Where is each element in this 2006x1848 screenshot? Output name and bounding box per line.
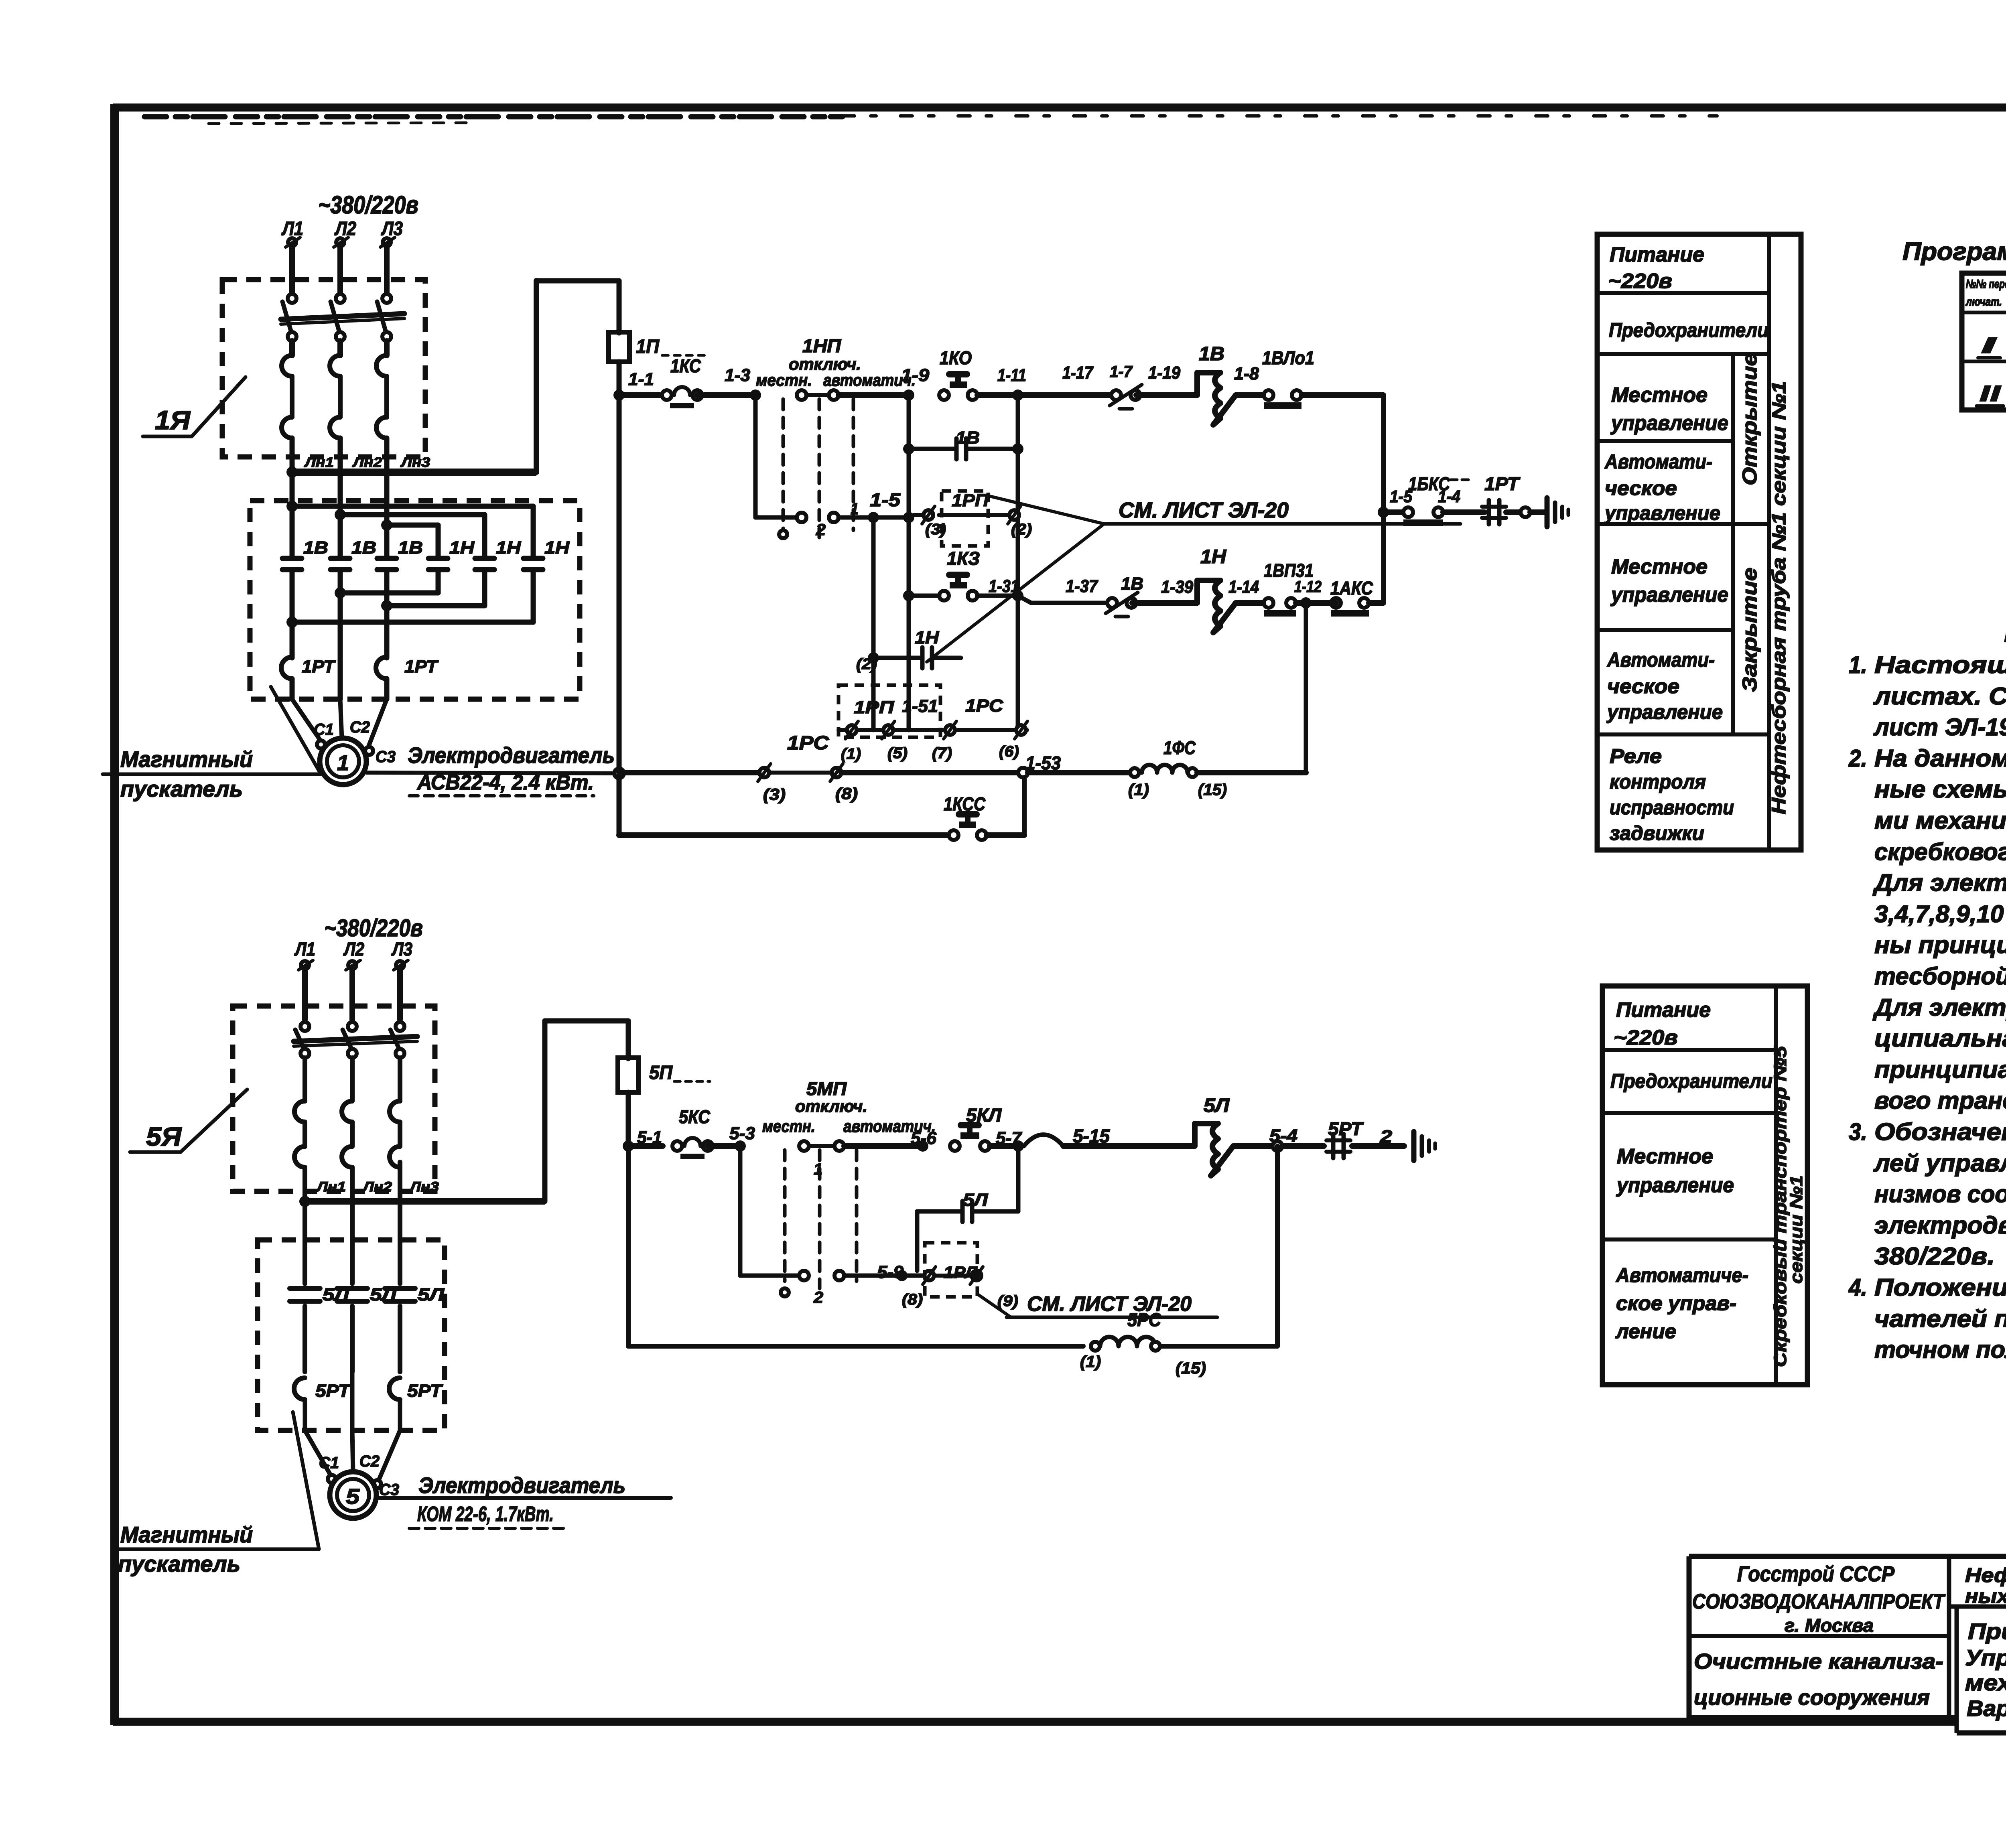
svg-text:1РП: 1РП	[952, 491, 989, 510]
wire rail5 seg3	[844, 1143, 923, 1149]
function table 2 row line 2	[1602, 1111, 1776, 1115]
svg-text:Лн2: Лн2	[352, 455, 382, 470]
svg-text:Автомати-: Автомати-	[1606, 649, 1715, 671]
fuse 5P	[618, 1058, 639, 1092]
svg-text:С1: С1	[319, 1454, 339, 1472]
svg-text:управление: управление	[1610, 412, 1728, 435]
wire rail5 seg8	[1352, 1143, 1404, 1149]
wire rail B seg1	[619, 770, 759, 775]
svg-text:(6): (6)	[999, 743, 1019, 760]
limit switch 1AKS	[1331, 598, 1341, 608]
wire motor1 leader line	[366, 773, 615, 773]
svg-text:Л3: Л3	[381, 218, 403, 239]
svg-text:1-9: 1-9	[901, 365, 930, 385]
function table 1 row line 6	[1597, 732, 1769, 736]
svg-text:5-4: 5-4	[1269, 1126, 1297, 1146]
svg-text:1НП: 1НП	[802, 335, 841, 356]
svg-text:ционные сооружения: ционные сооружения	[1694, 1686, 1930, 1710]
program table outer box	[1962, 273, 2006, 410]
svg-text:С1: С1	[314, 721, 334, 738]
svg-text:задвижки: задвижки	[1610, 822, 1704, 844]
svg-text:управление: управление	[1610, 583, 1728, 607]
wire m5 bottom rail seg2	[1160, 1344, 1277, 1349]
breaker pole 3 (motor1)	[382, 294, 391, 303]
svg-text:1: 1	[337, 751, 349, 775]
svg-text:С3: С3	[376, 748, 396, 766]
coil 1V	[1197, 373, 1236, 425]
wire m5 fuse lead lower	[626, 1092, 631, 1146]
breaker pole 1 (motor1)	[288, 294, 296, 303]
svg-text:1Н: 1Н	[544, 538, 570, 558]
svg-text:Электродвигатель: Электродвигатель	[418, 1473, 625, 1498]
svg-text:Питание: Питание	[1616, 998, 1711, 1022]
svg-text:ление: ление	[1615, 1320, 1676, 1343]
svg-text:чателей показаны на схеме в пр: чателей показаны на схеме в промежу-	[1874, 1305, 2006, 1332]
wire rail B seg3	[1028, 770, 1135, 775]
contact 1RP-2	[847, 725, 857, 735]
svg-text:1АКС: 1АКС	[1330, 578, 1373, 598]
wire control feed bar	[292, 469, 536, 476]
svg-text:ных элементов на расход воды 1: ных элементов на расход воды 110 л/сек	[1965, 1585, 2006, 1607]
wire rail C seg2	[987, 832, 1024, 838]
wire motor5 lead C2	[352, 1430, 353, 1473]
thermal element phase2 (motor1)	[330, 355, 340, 376]
wire rail5 seg4	[990, 1143, 1018, 1149]
svg-text:Для электродвигателей механизм: Для электродвигателей механизмов №№2,	[1872, 869, 2006, 896]
selector 1NP solid stem	[753, 395, 758, 517]
svg-text:(8): (8)	[902, 1291, 923, 1308]
wire phase2 drop	[337, 246, 343, 294]
wire row 5-9	[844, 1274, 923, 1278]
svg-text:Настоящий чертеж выполнен на д: Настоящий чертеж выполнен на двух	[1874, 651, 2006, 678]
svg-text:Автомати-: Автомати-	[1604, 450, 1712, 473]
wire rail A seg4	[977, 392, 1018, 398]
svg-text:Лн1: Лн1	[316, 1179, 346, 1195]
wire phase3 mid	[384, 341, 390, 355]
selector5 dash pos3	[855, 1150, 859, 1281]
svg-text:5: 5	[346, 1485, 360, 1509]
node 1-9	[903, 389, 914, 401]
svg-text:~380/220в: ~380/220в	[324, 915, 423, 941]
svg-text:~220в: ~220в	[1608, 270, 1672, 293]
svg-text:Нефтесборная труба №1 секции №: Нефтесборная труба №1 секции №1	[1768, 381, 1790, 814]
contact 5L-c	[398, 1240, 402, 1284]
svg-text:2: 2	[816, 521, 826, 539]
function table 1 row line 1	[1597, 291, 1769, 295]
terminal before ground (ctrl1)	[1521, 507, 1530, 517]
svg-text:Л1: Л1	[294, 939, 315, 959]
function table 2 outer box	[1602, 986, 1807, 1385]
wire motor5 leader line	[376, 1496, 671, 1500]
terminal L2 m5	[348, 961, 356, 969]
svg-text:вого транспортера №5.: вого транспортера №5.	[1874, 1087, 2006, 1114]
svg-text:Предохранители: Предохранители	[1610, 1070, 1773, 1092]
svg-text:II: II	[1980, 381, 2001, 406]
coil 5RS	[1100, 1337, 1155, 1346]
selector lower contact	[797, 513, 806, 522]
svg-text:Реле: Реле	[1610, 745, 1662, 767]
svg-text:2: 2	[1380, 1127, 1393, 1146]
svg-text:Лн1: Лн1	[304, 455, 334, 470]
svg-text:5КЛ: 5КЛ	[966, 1105, 1002, 1126]
thermal relay 5RT phase1	[294, 1378, 305, 1400]
svg-text:Принципиальные схемы: Принципиальные схемы	[1968, 1619, 2006, 1644]
wire m5 bottom rail seg1	[628, 1344, 1083, 1349]
relay 1RL dashed box	[925, 1243, 977, 1297]
breaker gang bar (motor1)	[281, 314, 404, 319]
wire control feed riser	[534, 281, 539, 472]
wire rail C drop	[617, 773, 622, 835]
contact 1V NC	[1107, 598, 1117, 608]
selector 5MP solid stem	[738, 1146, 743, 1276]
ground (ctrl5)	[1411, 1132, 1417, 1160]
contact 1KS	[662, 390, 672, 400]
wire 5L aux riser	[1016, 1146, 1021, 1211]
svg-text:1КЗ: 1КЗ	[947, 548, 980, 569]
contact 1V selfhold	[954, 438, 959, 459]
svg-text:электродвигателей по схеме сое: электродвигателей по схеме соединений	[1874, 1212, 2006, 1239]
svg-text:листах. Совместно с данным лис: листах. Совместно с данным листом см.	[1873, 683, 2006, 710]
wire rail N seg1	[1018, 596, 1031, 603]
svg-text:СМ. ЛИСТ ЭЛ-20: СМ. ЛИСТ ЭЛ-20	[1119, 498, 1289, 522]
svg-text:2.: 2.	[1848, 745, 1867, 772]
svg-text:пускатель: пускатель	[118, 1551, 240, 1576]
function table 2 row line 3	[1602, 1237, 1776, 1241]
leader line to contactor (motor1)	[271, 687, 321, 774]
svg-text:Местное: Местное	[1617, 1145, 1713, 1168]
wire 5L aux drop	[915, 1211, 920, 1271]
breaker pole 2 (motor1)	[336, 294, 345, 303]
wire distribution row2	[340, 512, 485, 517]
wire m5 phase3 drop	[397, 969, 403, 1020]
contact 1N-c	[524, 556, 543, 561]
node m5 phase1 junction	[299, 1196, 311, 1207]
program table row line b	[1962, 360, 2006, 363]
leader underline (ctrl5)	[1007, 1316, 1217, 1319]
wire distribution row1	[286, 501, 298, 512]
svg-text:5-15: 5-15	[1073, 1126, 1110, 1146]
title block left col split	[1689, 1634, 1949, 1638]
svg-text:СОЮЗВОДОКАНАЛПРОЕКТ: СОЮЗВОДОКАНАЛПРОЕКТ	[1692, 1590, 1946, 1613]
svg-text:~220в: ~220в	[1614, 1026, 1678, 1049]
svg-text:1-19: 1-19	[1148, 363, 1180, 383]
wire rail C seg1	[619, 832, 949, 838]
wire phase1 in box	[290, 570, 295, 658]
svg-text:Питание: Питание	[1610, 243, 1704, 266]
wire V1	[907, 395, 911, 730]
svg-text:1Н: 1Н	[915, 628, 939, 647]
svg-text:1РС: 1РС	[787, 732, 829, 754]
wire rail A seg2	[697, 392, 755, 398]
svg-text:1Я: 1Я	[155, 405, 191, 435]
svg-text:(5): (5)	[887, 745, 908, 762]
svg-text:1РС: 1РС	[965, 696, 1003, 716]
limit switch 1VP31	[1264, 598, 1273, 608]
svg-text:тесборной трубы №1.: тесборной трубы №1.	[1874, 963, 2006, 990]
svg-text:5-3: 5-3	[729, 1124, 755, 1143]
relay 1RP-2 dashed box	[839, 685, 940, 737]
wire output line seg1	[1383, 509, 1406, 515]
svg-text:Обозначение аппаратов и маркир: Обозначение аппаратов и маркировка це-	[1874, 1118, 2006, 1145]
svg-text:точном положении.: точном положении.	[1874, 1336, 2006, 1363]
svg-text:1РЛ: 1РЛ	[944, 1263, 978, 1282]
breaker gang bar (motor5)	[294, 1037, 417, 1041]
selector dash pos2	[818, 399, 821, 538]
contact 1N-a	[428, 556, 448, 561]
pushbutton 1KO	[939, 390, 949, 400]
wire phase3 in box	[384, 570, 390, 658]
leader diag2 (ctrl1)	[927, 524, 1104, 662]
contact 1V-c	[377, 556, 396, 561]
svg-text:отключ.: отключ.	[795, 1097, 867, 1116]
coil 1FS	[1142, 765, 1188, 773]
wire phase2 mid	[337, 341, 343, 355]
svg-text:Нефтеловушка из сборных железо: Нефтеловушка из сборных железобетон-	[1965, 1564, 2006, 1586]
svg-text:I: I	[1981, 333, 1997, 358]
wire 1KZ row left	[909, 594, 939, 598]
contact 5L aux	[960, 1201, 965, 1222]
svg-text:Магнитный: Магнитный	[120, 1522, 253, 1547]
wire merge bar3	[292, 620, 533, 625]
selector5 dash pos2	[818, 1150, 822, 1288]
svg-text:Лн2: Лн2	[362, 1179, 392, 1195]
wire row 1-5	[755, 515, 797, 520]
thermal relay 5RT phase3	[389, 1378, 400, 1400]
svg-text:Открытие: Открытие	[1738, 353, 1761, 485]
ground (ctrl1)	[1545, 498, 1550, 527]
svg-text:пускатель: пускатель	[120, 776, 243, 801]
contact 1N aux	[920, 647, 925, 668]
wire motor1 lead C1	[292, 699, 321, 741]
selector5 lower contact	[799, 1271, 809, 1280]
wire rail5 seg1	[628, 1143, 663, 1149]
wire rail A seg1	[619, 392, 667, 398]
terminal L3	[383, 238, 391, 246]
selector dash pos1	[782, 399, 785, 530]
thermal element phase1 (motor5)	[303, 1058, 307, 1101]
svg-text:Программа работы контактов ВП: Программа работы контактов ВП 700/26	[1902, 238, 2006, 266]
title block mid box	[1955, 1607, 1959, 1733]
wire m5 ctrl vertical	[626, 1146, 631, 1346]
svg-text:(15): (15)	[1198, 781, 1227, 799]
terminal C1 m5	[328, 1475, 336, 1483]
svg-text:лей управления электродвигател: лей управления электродвигателями меха-	[1873, 1150, 2006, 1177]
node 5-6	[917, 1140, 928, 1152]
svg-text:Местное: Местное	[1611, 555, 1708, 578]
svg-text:принципиальной схеме управлени: принципиальной схеме управления скребко-	[1874, 1056, 2006, 1083]
wire phase1 mid	[289, 341, 295, 355]
svg-text:управление: управление	[1616, 1174, 1734, 1197]
svg-text:1В: 1В	[398, 538, 423, 558]
svg-text:(1): (1)	[1080, 1353, 1101, 1371]
svg-text:5Я: 5Я	[146, 1122, 182, 1151]
wire m5 phase1 drop	[302, 969, 308, 1020]
function table 1 row line 2	[1597, 352, 1769, 356]
svg-text:1РТ: 1РТ	[404, 657, 439, 676]
svg-text:3.: 3.	[1849, 1118, 1867, 1145]
wire distribution row3	[387, 523, 438, 528]
svg-text:(1): (1)	[1128, 781, 1149, 799]
node 5-1	[623, 1140, 634, 1152]
wire right vertical (ctrl1)	[1381, 395, 1386, 603]
svg-text:(8): (8)	[835, 785, 858, 803]
svg-text:управление: управление	[1604, 502, 1720, 524]
wire rail5 seg7	[1282, 1143, 1324, 1149]
svg-text:5РТ: 5РТ	[1328, 1118, 1364, 1139]
svg-text:1-3: 1-3	[725, 365, 750, 385]
contactor 5Ya dashed enclosure	[233, 1006, 435, 1191]
svg-text:5РТ: 5РТ	[407, 1381, 443, 1401]
node 1-53	[1017, 767, 1029, 778]
thermal relay 1RT phase3	[376, 657, 387, 679]
node phase1-control junction	[286, 467, 298, 478]
svg-text:Автоматиче-: Автоматиче-	[1615, 1264, 1748, 1286]
svg-text:№№ перек-: №№ перек-	[1966, 278, 2006, 291]
svg-text:1-12: 1-12	[1294, 578, 1322, 596]
wire control vertical feed	[617, 395, 622, 835]
svg-text:5РТ: 5РТ	[315, 1381, 351, 1401]
svg-text:1РТ: 1РТ	[1484, 473, 1521, 494]
svg-text:исправности: исправности	[1610, 796, 1734, 819]
selector dash pos3	[852, 399, 855, 530]
svg-text:(7): (7)	[932, 745, 952, 762]
svg-text:1Н: 1Н	[449, 538, 475, 558]
wire phase2 in box	[338, 570, 343, 699]
function table 2 inner vertical	[1774, 986, 1778, 1385]
svg-text:Примечания: Примечания	[2004, 620, 2006, 647]
svg-text:(2): (2)	[856, 656, 877, 673]
terminal C1	[317, 740, 325, 749]
limit switch 1BKS	[1403, 507, 1413, 517]
wire m5 phase2 drop	[349, 969, 355, 1020]
svg-text:управление: управление	[1606, 701, 1723, 723]
terminal L1 m5	[301, 961, 309, 969]
wire fuse lead upper	[617, 281, 622, 333]
svg-text:5-9: 5-9	[877, 1262, 904, 1282]
wire merge bar2	[387, 603, 485, 609]
title block outer box	[1689, 1554, 2006, 1559]
node phase3 junction	[381, 519, 392, 531]
svg-text:1В: 1В	[351, 538, 376, 558]
svg-text:С2: С2	[350, 718, 370, 736]
wire output line seg2	[1443, 509, 1484, 515]
contact 1V-a	[282, 556, 302, 561]
svg-text:ны принципиальной схеме управл: ны принципиальной схеме управления неф-	[1874, 931, 2006, 958]
wire m5 phase2 cont	[350, 1201, 355, 1240]
svg-text:Л3: Л3	[391, 939, 412, 959]
contactor 5L dashed enclosure (motor5)	[258, 1240, 445, 1430]
svg-text:1В: 1В	[1199, 343, 1224, 365]
wire m5 phase2 through	[350, 1372, 355, 1430]
svg-text:контроля: контроля	[1610, 771, 1706, 793]
svg-text:(9): (9)	[997, 1293, 1018, 1310]
wire rail5 seg6	[1233, 1143, 1273, 1149]
wire motor5 lead C1	[305, 1430, 331, 1476]
wire rail A seg8	[1301, 392, 1383, 398]
thermal element phase2 (motor5)	[350, 1058, 355, 1101]
svg-text:Для электродвигателя механизма: Для электродвигателя механизма №6 прин-	[1872, 994, 2006, 1021]
wire rail A seg3	[839, 392, 909, 398]
reversing contactor dashed enclosure (motor1)	[250, 501, 580, 699]
svg-text:1ФС: 1ФС	[1163, 737, 1196, 758]
function table 1 row line 5	[1597, 628, 1733, 632]
svg-text:1П: 1П	[636, 336, 660, 357]
svg-text:1-8: 1-8	[1234, 364, 1259, 383]
svg-text:1-5: 1-5	[870, 489, 901, 510]
svg-text:лист ЭЛ-19.: лист ЭЛ-19.	[1873, 714, 2006, 740]
svg-text:4.: 4.	[1848, 1274, 1867, 1301]
wire rail C riser	[1022, 777, 1027, 835]
svg-text:~380/220в: ~380/220в	[318, 191, 418, 219]
limit switch 1VLo1	[1264, 390, 1273, 400]
svg-text:1ВЛо1: 1ВЛо1	[1262, 347, 1314, 368]
svg-text:5КС: 5КС	[679, 1106, 711, 1127]
svg-text:1Н: 1Н	[1200, 546, 1226, 568]
terminal L1	[288, 238, 296, 246]
svg-text:1-1: 1-1	[628, 369, 654, 389]
title block left col divider	[1947, 1556, 1951, 1718]
wire motor1 lead C2	[340, 699, 342, 739]
svg-text:1-39: 1-39	[1161, 577, 1193, 597]
wire output line seg4	[1530, 509, 1545, 515]
wire row 1-5b	[839, 515, 909, 520]
leader diag (ctrl5)	[977, 1294, 1011, 1317]
terminal C3	[365, 747, 373, 755]
svg-text:Управления и сигнализации: Управления и сигнализации	[1965, 1645, 2006, 1670]
wire rail B seg4	[1197, 770, 1306, 775]
thermal contact 5RT (ctrl5)	[1331, 1134, 1336, 1158]
thermal element phase1 (motor1)	[282, 355, 292, 376]
function table 2 row line 1	[1602, 1048, 1776, 1052]
wire m5 link top	[545, 1018, 628, 1024]
wire rail A seg5	[1018, 392, 1111, 398]
svg-text:АСВ22-4, 2.4 кВт.: АСВ22-4, 2.4 кВт.	[416, 771, 594, 794]
breaker pole 1 (motor5)	[300, 1022, 309, 1031]
svg-text:1КСС: 1КСС	[944, 793, 986, 814]
wire rail N seg2	[1132, 600, 1197, 606]
svg-text:1.: 1.	[1849, 651, 1867, 678]
leader underline (ctrl1)	[1102, 522, 1460, 526]
svg-text:Л2: Л2	[343, 939, 364, 959]
svg-text:1В: 1В	[303, 538, 328, 558]
wire rail A seg7	[1236, 392, 1264, 398]
title block top title cell bottom	[1949, 1605, 2006, 1609]
thermal relay 1RT phase1	[281, 657, 292, 679]
selector5 dash pos1	[783, 1150, 787, 1281]
svg-text:1КО: 1КО	[940, 347, 972, 368]
terminal 1FS left	[1130, 768, 1139, 777]
selector upper contact	[797, 390, 806, 400]
contact 1V-b	[331, 556, 350, 561]
svg-text:5П: 5П	[649, 1062, 673, 1083]
svg-text:местн.: местн.	[762, 1117, 815, 1136]
svg-text:(2): (2)	[1011, 521, 1032, 538]
svg-text:3,4,7,8,9,10 принципиальные сх: 3,4,7,8,9,10 принципиальные схемы аналог…	[1874, 901, 2006, 927]
node 1-11	[1012, 389, 1023, 401]
svg-text:Положения контактов конечных в: Положения контактов конечных выклю-	[1874, 1274, 2006, 1301]
wire rail N seg4	[1296, 600, 1336, 606]
svg-text:2: 2	[813, 1289, 823, 1306]
wire phase1 drop	[289, 246, 295, 294]
svg-text:Местное: Местное	[1611, 383, 1708, 407]
wire row RP2	[839, 728, 845, 732]
contact 5KS	[672, 1141, 682, 1151]
svg-text:1-17: 1-17	[1062, 363, 1094, 383]
wire m5 link riser	[542, 1021, 548, 1201]
svg-text:ми механизмов нефтесборной тру: ми механизмов нефтесборной трубы №1 и	[1874, 807, 2006, 834]
leader diag1 (ctrl1)	[988, 496, 1104, 524]
contact 5L-b	[350, 1240, 355, 1284]
